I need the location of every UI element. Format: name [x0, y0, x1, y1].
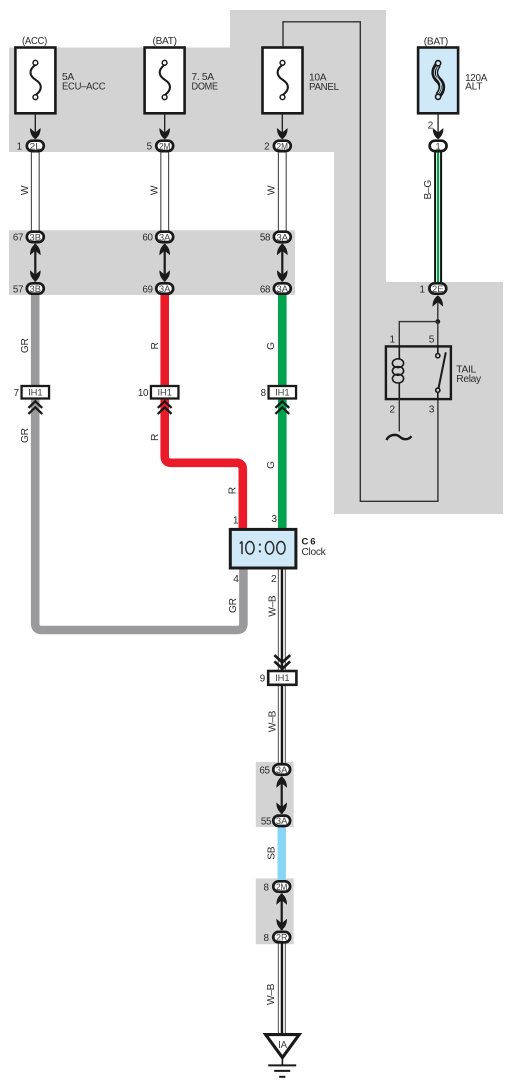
chevrons above IH1 9: [274, 655, 290, 669]
connector 57 3B: [13, 283, 44, 295]
svg-text:PANEL: PANEL: [309, 82, 339, 93]
connector 2 2M panel: [264, 141, 291, 153]
relay coil: [392, 346, 403, 399]
wire W from fuse PANEL to 3A: [278, 152, 286, 231]
junction block shading main polygon: [9, 10, 503, 514]
svg-text:58: 58: [260, 233, 271, 244]
junction arrows 3B pair: [30, 244, 41, 282]
junction arrows 3A lower pair: [276, 776, 287, 814]
svg-text:IH1: IH1: [275, 387, 289, 398]
svg-text:2M: 2M: [159, 141, 171, 151]
svg-text:2: 2: [271, 574, 277, 585]
clock display 10:00: [240, 541, 285, 554]
wire G from 68 3A to clock pin 3: [278, 294, 287, 531]
clock box C6: [230, 529, 296, 568]
connector 1 2E: [420, 283, 447, 295]
svg-text:ECU–ACC: ECU–ACC: [62, 81, 105, 92]
svg-text:W: W: [20, 185, 31, 195]
junction arrows 3A pair PANEL: [277, 244, 288, 282]
svg-text:1: 1: [420, 284, 425, 295]
svg-text:69: 69: [142, 284, 152, 295]
connector 65 3A: [259, 764, 290, 776]
svg-text:W–B: W–B: [268, 595, 279, 617]
svg-text:Relay: Relay: [456, 374, 482, 385]
svg-text:W: W: [149, 185, 160, 195]
svg-text:1: 1: [436, 141, 441, 151]
wire SB from 55 3A to 8 2M: [278, 825, 286, 882]
svg-text:R: R: [150, 342, 161, 349]
wire R from 69 3A to clock pin 1: [165, 294, 243, 531]
svg-text:W: W: [267, 185, 278, 195]
svg-text:9: 9: [260, 673, 265, 684]
connector 58 3A: [260, 232, 291, 244]
fuse 7.5A DOME box: [145, 48, 185, 114]
IH1 connector 8: [261, 386, 296, 399]
svg-text:W–B: W–B: [268, 710, 279, 732]
connector 55 3A: [261, 816, 290, 828]
chevrons below IH1 7: [28, 401, 42, 414]
wire W-B from clock pin 2 to connector 65: [278, 568, 285, 764]
svg-text:R: R: [227, 487, 238, 494]
svg-text:3A: 3A: [159, 284, 171, 294]
fuse 5A ECU-ACC box: [15, 48, 55, 114]
ground hatching: [268, 1058, 296, 1077]
svg-text:8: 8: [261, 388, 267, 399]
junction block shading band B: [9, 230, 295, 295]
svg-text:1: 1: [17, 142, 22, 153]
wire W from fuse DOME to 3A: [161, 152, 169, 231]
relay pin 2 wire continuation: [398, 399, 400, 431]
svg-text:5: 5: [429, 334, 435, 345]
svg-text:GR: GR: [20, 428, 31, 443]
connector 8 2M lower: [264, 881, 291, 893]
svg-text:IA: IA: [278, 1040, 288, 1051]
svg-text:W–B: W–B: [266, 983, 277, 1005]
clock name C 6 Clock: [302, 535, 327, 558]
svg-text:(BAT): (BAT): [153, 36, 177, 47]
svg-text:7: 7: [14, 388, 19, 399]
arrow into 2E from junction: [433, 295, 444, 321]
svg-text:G: G: [266, 461, 277, 469]
wire W from fuse ECU-ACC to 3B: [31, 152, 39, 231]
IH1 connector 10: [138, 386, 179, 399]
fusible link 120A ALT box: [418, 48, 458, 114]
label 120A ALT: [465, 73, 487, 92]
svg-text:GR: GR: [20, 338, 31, 353]
svg-text:2E: 2E: [432, 284, 444, 294]
connector 68 3A: [260, 283, 291, 295]
connector 5 2M: [147, 141, 174, 153]
connector 1 2L: [17, 141, 44, 153]
label 5A ECU-ACC: [62, 72, 105, 92]
svg-text:3A: 3A: [277, 232, 289, 242]
svg-text:IH1: IH1: [28, 387, 42, 398]
svg-text:2: 2: [428, 121, 434, 132]
fuse 7.5A DOME symbol: [160, 60, 170, 99]
svg-text:3: 3: [271, 514, 277, 525]
ground symbol IA: [266, 1035, 300, 1058]
relay switch: [436, 346, 446, 399]
svg-text:R: R: [150, 434, 161, 441]
relay TAIL box: [386, 346, 451, 399]
svg-text:C 6: C 6: [302, 535, 316, 546]
wire W-B from connector 2R to ground: [278, 943, 285, 1035]
svg-text:55: 55: [261, 817, 272, 828]
stem and arrow ALT to connector 1: [433, 114, 444, 140]
svg-text:3B: 3B: [30, 232, 42, 242]
svg-text:68: 68: [260, 284, 271, 295]
svg-text:3A: 3A: [276, 765, 288, 775]
svg-text:5: 5: [147, 142, 153, 153]
svg-text:SB: SB: [266, 846, 277, 859]
stem and arrow fuse DOME to 2M: [159, 113, 170, 139]
svg-text:GR: GR: [228, 598, 239, 613]
junction block shading rect C: [256, 762, 294, 827]
svg-text:8: 8: [264, 933, 270, 944]
connector 67 3B: [13, 232, 44, 244]
chevrons below IH1 10: [158, 401, 172, 414]
svg-text:(BAT): (BAT): [424, 36, 448, 47]
connector 1 ALT: [430, 141, 447, 152]
wire B-G from ALT connector 1 to 2E: [435, 152, 441, 282]
svg-text:2R: 2R: [276, 933, 288, 943]
connector 60 3A: [142, 232, 173, 244]
wire GR from 57 3B to clock pin 4: [35, 294, 243, 631]
svg-text:3A: 3A: [159, 232, 171, 242]
svg-text:3B: 3B: [30, 284, 42, 294]
svg-text:10: 10: [138, 388, 149, 399]
svg-text:DOME: DOME: [192, 81, 219, 92]
svg-text:(ACC): (ACC): [22, 36, 47, 47]
svg-text:3A: 3A: [276, 816, 288, 826]
fuse 5A ECU-ACC symbol: [30, 60, 40, 99]
svg-text:IH1: IH1: [275, 672, 289, 683]
svg-text:2: 2: [264, 142, 269, 153]
label 7.5A DOME: [192, 72, 219, 92]
svg-text:1: 1: [233, 516, 239, 527]
svg-text:60: 60: [142, 233, 153, 244]
stem and arrow fuse PANEL to 2M: [277, 113, 288, 139]
svg-text:IH1: IH1: [158, 387, 172, 398]
connector 8 2R: [264, 932, 291, 944]
junction block shading rect D: [256, 878, 294, 944]
svg-text:ALT: ALT: [465, 81, 482, 92]
IH1 connector 7: [14, 386, 49, 399]
IH1 connector 9: [260, 671, 297, 685]
svg-text:B–G: B–G: [423, 180, 434, 200]
svg-text:1: 1: [390, 334, 396, 345]
svg-text:3: 3: [429, 405, 435, 416]
svg-text:2: 2: [390, 405, 396, 416]
chevrons below IH1 8: [275, 401, 289, 414]
fusible link 120A ALT symbol: [434, 61, 442, 100]
svg-text:67: 67: [13, 233, 23, 244]
fuse 10A PANEL box: [263, 48, 303, 114]
svg-text:2M: 2M: [276, 882, 288, 892]
svg-text:G: G: [266, 342, 277, 350]
connector 69 3A: [142, 283, 173, 295]
wire from relay pin 3 to PANEL fuse top: [283, 22, 438, 502]
junction arrows 2M-2R pair: [276, 893, 287, 930]
svg-text:2M: 2M: [277, 141, 289, 151]
junction arrows 3A pair DOME: [159, 244, 170, 282]
relay feed junction node and wires: [399, 319, 440, 346]
svg-text:4: 4: [233, 574, 239, 585]
svg-text:57: 57: [13, 284, 23, 295]
svg-text:2L: 2L: [30, 141, 42, 151]
relay name TAIL Relay: [456, 365, 482, 385]
continuation squiggle: [387, 435, 412, 440]
stem and arrow fuse ECU-ACC to 2L: [30, 113, 41, 139]
svg-text:65: 65: [259, 765, 270, 776]
fuse 10A PANEL symbol: [278, 60, 288, 99]
svg-text:3A: 3A: [277, 284, 289, 294]
label 10A PANEL: [309, 73, 339, 93]
svg-text:8: 8: [264, 882, 270, 893]
svg-text:Clock: Clock: [302, 547, 327, 558]
